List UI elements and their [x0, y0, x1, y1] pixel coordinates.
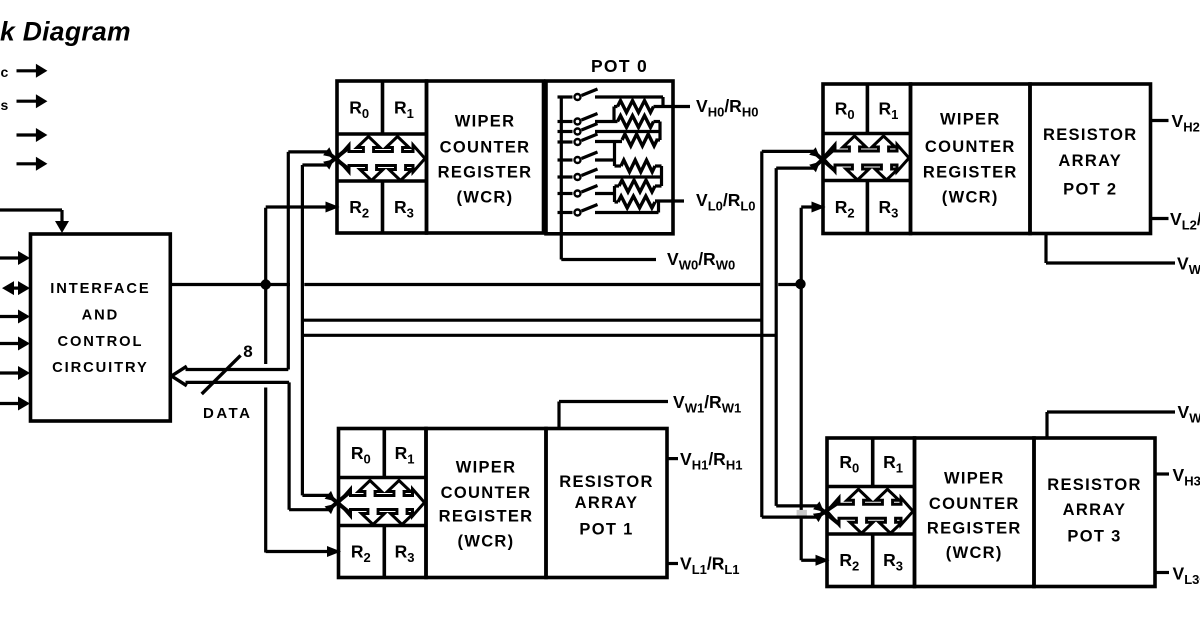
- svg-text:COUNTER: COUNTER: [925, 138, 1016, 156]
- svg-text:(WCR): (WCR): [946, 544, 1003, 562]
- svg-text:8: 8: [243, 342, 252, 361]
- svg-text:POT 3: POT 3: [1067, 528, 1121, 546]
- svg-text:(WCR): (WCR): [457, 189, 514, 207]
- svg-text:(WCR): (WCR): [942, 189, 999, 207]
- svg-text:CIRCUITRY: CIRCUITRY: [52, 360, 149, 376]
- svg-text:AND: AND: [82, 308, 120, 324]
- svg-text:POT 2: POT 2: [1063, 181, 1117, 199]
- svg-text:COUNTER: COUNTER: [440, 139, 531, 157]
- svg-text:REGISTER: REGISTER: [439, 508, 534, 526]
- svg-text:ARRAY: ARRAY: [575, 494, 639, 512]
- svg-text:WIPER: WIPER: [456, 459, 517, 477]
- svg-text:CONTROL: CONTROL: [57, 334, 143, 350]
- svg-text:k Diagram: k Diagram: [0, 17, 131, 47]
- svg-text:c: c: [1, 64, 9, 80]
- svg-text:WIPER: WIPER: [940, 111, 1001, 129]
- svg-text:REGISTER: REGISTER: [927, 520, 1022, 538]
- svg-text:(WCR): (WCR): [458, 533, 515, 551]
- svg-text:WIPER: WIPER: [944, 469, 1005, 487]
- svg-text:REGISTER: REGISTER: [923, 164, 1018, 182]
- svg-text:DATA: DATA: [203, 405, 252, 422]
- svg-text:RESISTOR: RESISTOR: [559, 473, 653, 491]
- svg-text:ARRAY: ARRAY: [1058, 152, 1122, 170]
- svg-text:s: s: [1, 97, 9, 113]
- svg-text:WIPER: WIPER: [455, 113, 516, 131]
- svg-text:ARRAY: ARRAY: [1063, 501, 1127, 519]
- svg-text:POT 1: POT 1: [579, 521, 633, 539]
- svg-text:RESISTOR: RESISTOR: [1043, 126, 1137, 144]
- svg-text:POT 0: POT 0: [591, 56, 648, 76]
- svg-text:COUNTER: COUNTER: [929, 495, 1020, 513]
- svg-text:RESISTOR: RESISTOR: [1047, 476, 1141, 494]
- svg-text:INTERFACE: INTERFACE: [50, 281, 150, 297]
- svg-text:REGISTER: REGISTER: [438, 164, 533, 182]
- svg-text:COUNTER: COUNTER: [441, 484, 532, 502]
